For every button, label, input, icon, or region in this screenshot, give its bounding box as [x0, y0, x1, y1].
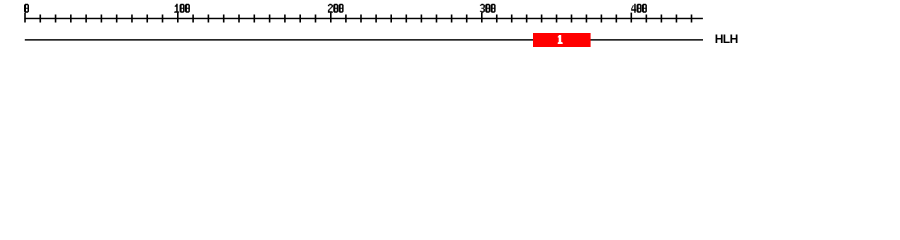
ruler major tick 300: [481, 13, 483, 23]
ruler label 400: [631, 4, 647, 13]
ruler minor ticks: [39, 15, 692, 23]
sequence backbone line: [25, 39, 703, 40]
ruler major tick 100: [177, 13, 179, 23]
ruler major tick 200: [330, 13, 332, 23]
match box 1 (red): [533, 33, 591, 47]
ruler major tick 0: [24, 13, 26, 23]
ruler major tick 400: [631, 13, 633, 23]
ruler axis line: [24, 18, 703, 19]
ruler label 100: [174, 4, 190, 13]
match number 1: [558, 35, 563, 44]
background: [0, 0, 900, 58]
svg-text:HLH: HLH: [715, 32, 738, 46]
ruler label 300: [480, 4, 496, 13]
ruler label 0: [24, 4, 29, 13]
ruler label 200: [328, 4, 344, 13]
